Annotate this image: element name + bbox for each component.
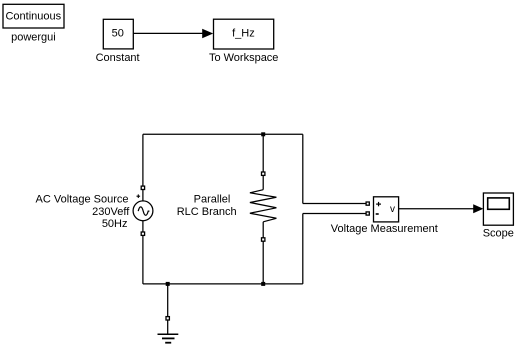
svg-text:230Veff: 230Veff bbox=[92, 206, 130, 218]
svg-text:RLC Branch: RLC Branch bbox=[177, 206, 237, 218]
svg-text:Scope: Scope bbox=[483, 228, 514, 240]
svg-text:f_Hz: f_Hz bbox=[232, 28, 255, 40]
svg-text:AC Voltage Source: AC Voltage Source bbox=[36, 194, 129, 206]
svg-text:Constant: Constant bbox=[96, 52, 140, 64]
svg-text:Parallel: Parallel bbox=[194, 193, 231, 205]
svg-text:Continuous: Continuous bbox=[5, 11, 61, 23]
svg-text:50: 50 bbox=[112, 28, 124, 40]
svg-text:To Workspace: To Workspace bbox=[209, 52, 279, 64]
svg-text:50Hz: 50Hz bbox=[102, 218, 128, 230]
svg-text:powergui: powergui bbox=[11, 32, 56, 44]
svg-text:Voltage Measurement: Voltage Measurement bbox=[331, 223, 438, 235]
svg-text:v: v bbox=[390, 204, 395, 215]
